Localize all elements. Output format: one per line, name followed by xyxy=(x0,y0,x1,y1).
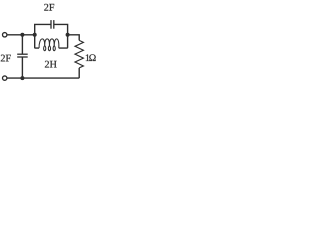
wire node A down to capacitor C2 xyxy=(21,35,23,54)
node D junction (bottom) xyxy=(20,76,24,80)
wire top-left horizontal xyxy=(7,34,35,36)
label 2F (left capacitor) xyxy=(1,55,11,62)
wire node C to resistor top xyxy=(68,35,80,41)
capacitor C2 plates (left branch) xyxy=(17,54,28,57)
node B junction xyxy=(33,33,37,37)
wire capacitor C2 down to bottom rail xyxy=(21,57,23,78)
wire top branch: up from B, across to capacitor C1 xyxy=(35,24,51,34)
terminal T2 (bottom-left port) xyxy=(2,76,6,80)
capacitor C1 plates (top branch) xyxy=(51,20,54,29)
label 2H (inductor) xyxy=(45,61,57,68)
wire resistor bottom to bottom rail xyxy=(78,68,80,78)
node C junction xyxy=(66,33,70,37)
resistor R1 zigzag xyxy=(75,40,83,68)
inductor L1 coil xyxy=(39,39,59,51)
wire top branch: capacitor C1 across, down to node C xyxy=(54,24,68,34)
node A junction xyxy=(20,33,24,37)
label 2F (top capacitor) xyxy=(44,4,54,11)
wire bottom rail xyxy=(7,77,79,79)
wire inductor to node C xyxy=(59,35,68,48)
terminal T1 (top-left port) xyxy=(2,33,6,37)
wire from node B down to inductor xyxy=(35,35,39,48)
label 1Ω (resistor) xyxy=(86,54,96,61)
